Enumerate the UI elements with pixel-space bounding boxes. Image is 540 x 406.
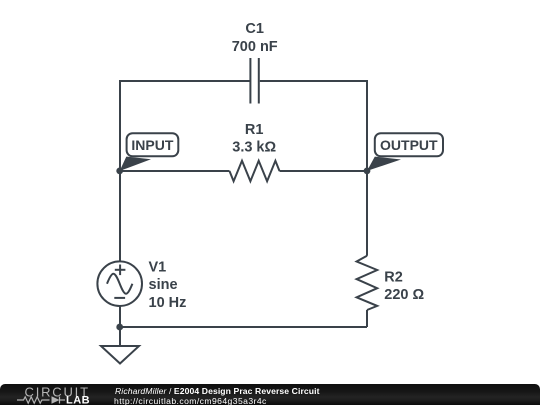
voltage source V1 bbox=[97, 261, 142, 306]
footer text: author and title bbox=[115, 386, 320, 396]
svg-text:sine: sine bbox=[149, 277, 178, 293]
svg-text:V1: V1 bbox=[149, 259, 167, 275]
wire: R2 bottom terminal up to zigzag bbox=[366, 310, 368, 327]
wire: R1 right terminal to OUTPUT node bbox=[280, 170, 368, 172]
CircuitLab logo bbox=[0, 384, 100, 405]
node OUTPUT junction dot bbox=[364, 168, 371, 175]
label V1 designator and value bbox=[149, 259, 187, 311]
svg-text:220 Ω: 220 Ω bbox=[384, 287, 424, 303]
svg-text:3.3 kΩ: 3.3 kΩ bbox=[232, 140, 276, 156]
footer text: url bbox=[114, 396, 267, 406]
net flag OUTPUT bbox=[367, 133, 443, 171]
svg-text:INPUT: INPUT bbox=[131, 137, 173, 153]
capacitor C1 bbox=[250, 58, 258, 104]
resistor R1 bbox=[230, 161, 280, 181]
svg-text:OUTPUT: OUTPUT bbox=[380, 137, 438, 153]
ground bbox=[101, 346, 139, 364]
label R2 designator and value bbox=[384, 269, 424, 303]
wire: C1 left plate to top-left corner to INPUT node bbox=[120, 81, 250, 171]
label C1 designator and value bbox=[232, 21, 278, 55]
wire: V1 negative terminal to ground junction bbox=[119, 306, 121, 327]
wire: ground junction to ground symbol bbox=[119, 327, 121, 346]
svg-text:LAB: LAB bbox=[66, 394, 90, 405]
footer bar bbox=[0, 384, 540, 405]
node: ground junction dot bbox=[116, 324, 123, 331]
resistor R2 bbox=[357, 256, 378, 310]
wire: R2 top terminal to OUTPUT node bbox=[366, 171, 368, 256]
wire: bottom net from ground junction to R2 bottom terminal bbox=[120, 326, 367, 328]
svg-text:10 Hz: 10 Hz bbox=[149, 295, 187, 311]
svg-text:R1: R1 bbox=[245, 122, 264, 138]
wire: C1 right plate to top-right corner to OUTPUT node bbox=[260, 81, 367, 171]
net flag INPUT bbox=[120, 133, 179, 171]
svg-text:C1: C1 bbox=[245, 21, 264, 37]
wire: INPUT node down to V1 positive terminal bbox=[119, 171, 121, 262]
node INPUT junction dot bbox=[116, 168, 123, 175]
wire: INPUT node to R1 left terminal bbox=[120, 170, 230, 172]
svg-text:R2: R2 bbox=[384, 269, 403, 285]
label R1 designator and value bbox=[232, 122, 276, 156]
svg-text:700 nF: 700 nF bbox=[232, 39, 278, 55]
